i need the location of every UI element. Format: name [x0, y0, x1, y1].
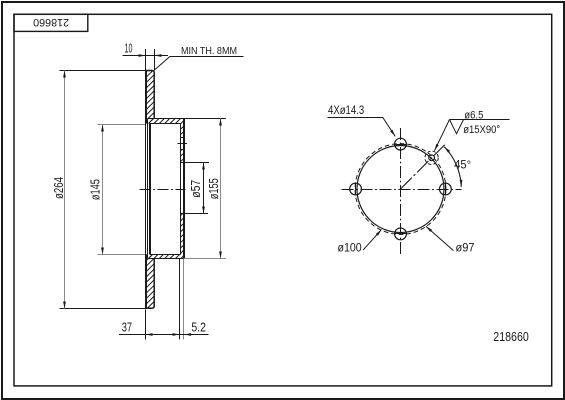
bolt hole top D14.3 — [395, 138, 407, 150]
bolt hole upper edge — [181, 137, 185, 139]
dim 145 extension bottom — [98, 254, 146, 256]
dim 155 extension bottom — [184, 258, 226, 260]
web inner edge top — [150, 123, 181, 125]
dim 10 line — [123, 55, 169, 57]
svg-text:218660: 218660 — [493, 329, 529, 344]
leader 6.5 arrow — [434, 144, 438, 151]
ring top edge — [145, 70, 152, 72]
svg-text:ø15X90°: ø15X90° — [463, 124, 500, 136]
outboard inner step line — [147, 119, 149, 259]
bolt hole bottom D14.3 — [395, 228, 407, 240]
hatch drum web top — [145, 119, 148, 122]
ring bottom right corner — [145, 259, 154, 309]
bore upper edge and dim ext — [181, 162, 210, 164]
svg-text:218660: 218660 — [33, 16, 69, 28]
bolt hole centre tick — [178, 143, 188, 145]
svg-text:ø155: ø155 — [206, 178, 221, 199]
bolt hole bottom tick — [394, 233, 407, 235]
disc outboard face lower thick — [145, 255, 147, 309]
svg-text:10: 10 — [125, 42, 133, 56]
web inner edge bottom — [150, 254, 181, 256]
svg-text:ø145: ø145 — [87, 179, 102, 200]
dim 37-52 extension mid — [179, 259, 181, 340]
web top edge — [148, 118, 185, 120]
dim 145 line — [102, 125, 104, 255]
pin hole D6.5 — [429, 155, 435, 161]
leader 100 line — [363, 230, 381, 251]
leader 6.5 diagonal — [434, 120, 449, 151]
svg-text:ø100: ø100 — [338, 240, 362, 254]
dim 264 extension top — [60, 70, 146, 72]
bolt hole right tick — [445, 183, 447, 196]
dim 155 line — [220, 119, 222, 259]
bolt hole top tick — [394, 144, 407, 146]
45 deg dimension arc — [444, 147, 461, 187]
hatch flange lower segment — [181, 214, 183, 216]
dim 57 arrows — [202, 163, 205, 170]
title box top-left — [14, 14, 88, 31]
dim 264 arrows — [63, 71, 66, 78]
bolt hole left D14.3 — [350, 183, 362, 195]
hatch flange mid segment — [181, 150, 182, 151]
leader 4x14.3 — [328, 118, 396, 137]
hatch flange upper segment — [180, 123, 182, 125]
front view horizontal centreline — [342, 189, 462, 191]
svg-text:5.2: 5.2 — [191, 321, 206, 335]
flange right face — [183, 119, 185, 259]
disc outboard face upper thick — [145, 70, 147, 124]
dim 264 line — [64, 71, 66, 309]
svg-text:ø57: ø57 — [188, 180, 203, 198]
svg-text:37: 37 — [122, 321, 132, 335]
leader 100 arrow — [376, 230, 382, 236]
bolt hole lower edge — [181, 149, 185, 151]
bolt hole left tick — [355, 183, 357, 196]
svg-text:ø6.5: ø6.5 — [464, 109, 483, 121]
svg-text:45°: 45° — [454, 158, 471, 172]
hatch friction ring bottom — [145, 255, 147, 257]
countersink circle D15 dashed — [425, 151, 438, 164]
hat drum inner wall — [149, 124, 151, 255]
disc outboard face middle — [145, 124, 147, 255]
dim 52 arrow — [184, 333, 191, 336]
countersink symbol — [450, 120, 464, 134]
dim 155 arrows — [219, 119, 222, 126]
leader 4x14.3 arrow — [390, 130, 395, 137]
hatch drum web bottom — [145, 255, 147, 257]
dim 37 extension left — [145, 310, 147, 340]
ring top right corner — [152, 71, 154, 119]
dim 37 arrows — [146, 333, 153, 336]
dim 52 extension right — [183, 259, 185, 340]
web bottom edge — [148, 258, 185, 260]
bore lower edge and dim ext — [181, 213, 209, 215]
svg-text:ø97: ø97 — [456, 240, 475, 254]
dim 145 arrows — [101, 125, 104, 132]
leader 97 line — [426, 226, 454, 250]
bolt hole right D14.3 — [440, 183, 452, 195]
dim 10 arrows — [139, 54, 146, 57]
45 deg radial line — [401, 145, 445, 189]
section centreline — [140, 189, 186, 191]
dim 10 extension lines — [145, 49, 147, 71]
hatch friction ring top — [145, 71, 147, 73]
dim 57 line — [203, 163, 205, 214]
svg-text:4Xø14.3: 4Xø14.3 — [328, 103, 364, 117]
front view vertical centreline — [400, 128, 402, 256]
leader 6.5 shelf — [450, 119, 510, 121]
hub circle D97 — [357, 146, 444, 233]
min thickness leader — [155, 57, 244, 70]
45 arc arrows — [444, 147, 450, 153]
dim 155 extension top — [184, 118, 226, 120]
flange left face — [180, 124, 182, 255]
leader 97 arrow — [426, 226, 432, 232]
svg-text:MIN TH. 8MM: MIN TH. 8MM — [181, 46, 237, 57]
bolt circle D100 dashed — [355, 144, 446, 235]
dim 264 extension bottom — [60, 308, 146, 310]
dim 37-52 line — [119, 334, 209, 336]
dim 145 extension top — [98, 124, 146, 126]
svg-text:ø264: ø264 — [51, 177, 66, 199]
